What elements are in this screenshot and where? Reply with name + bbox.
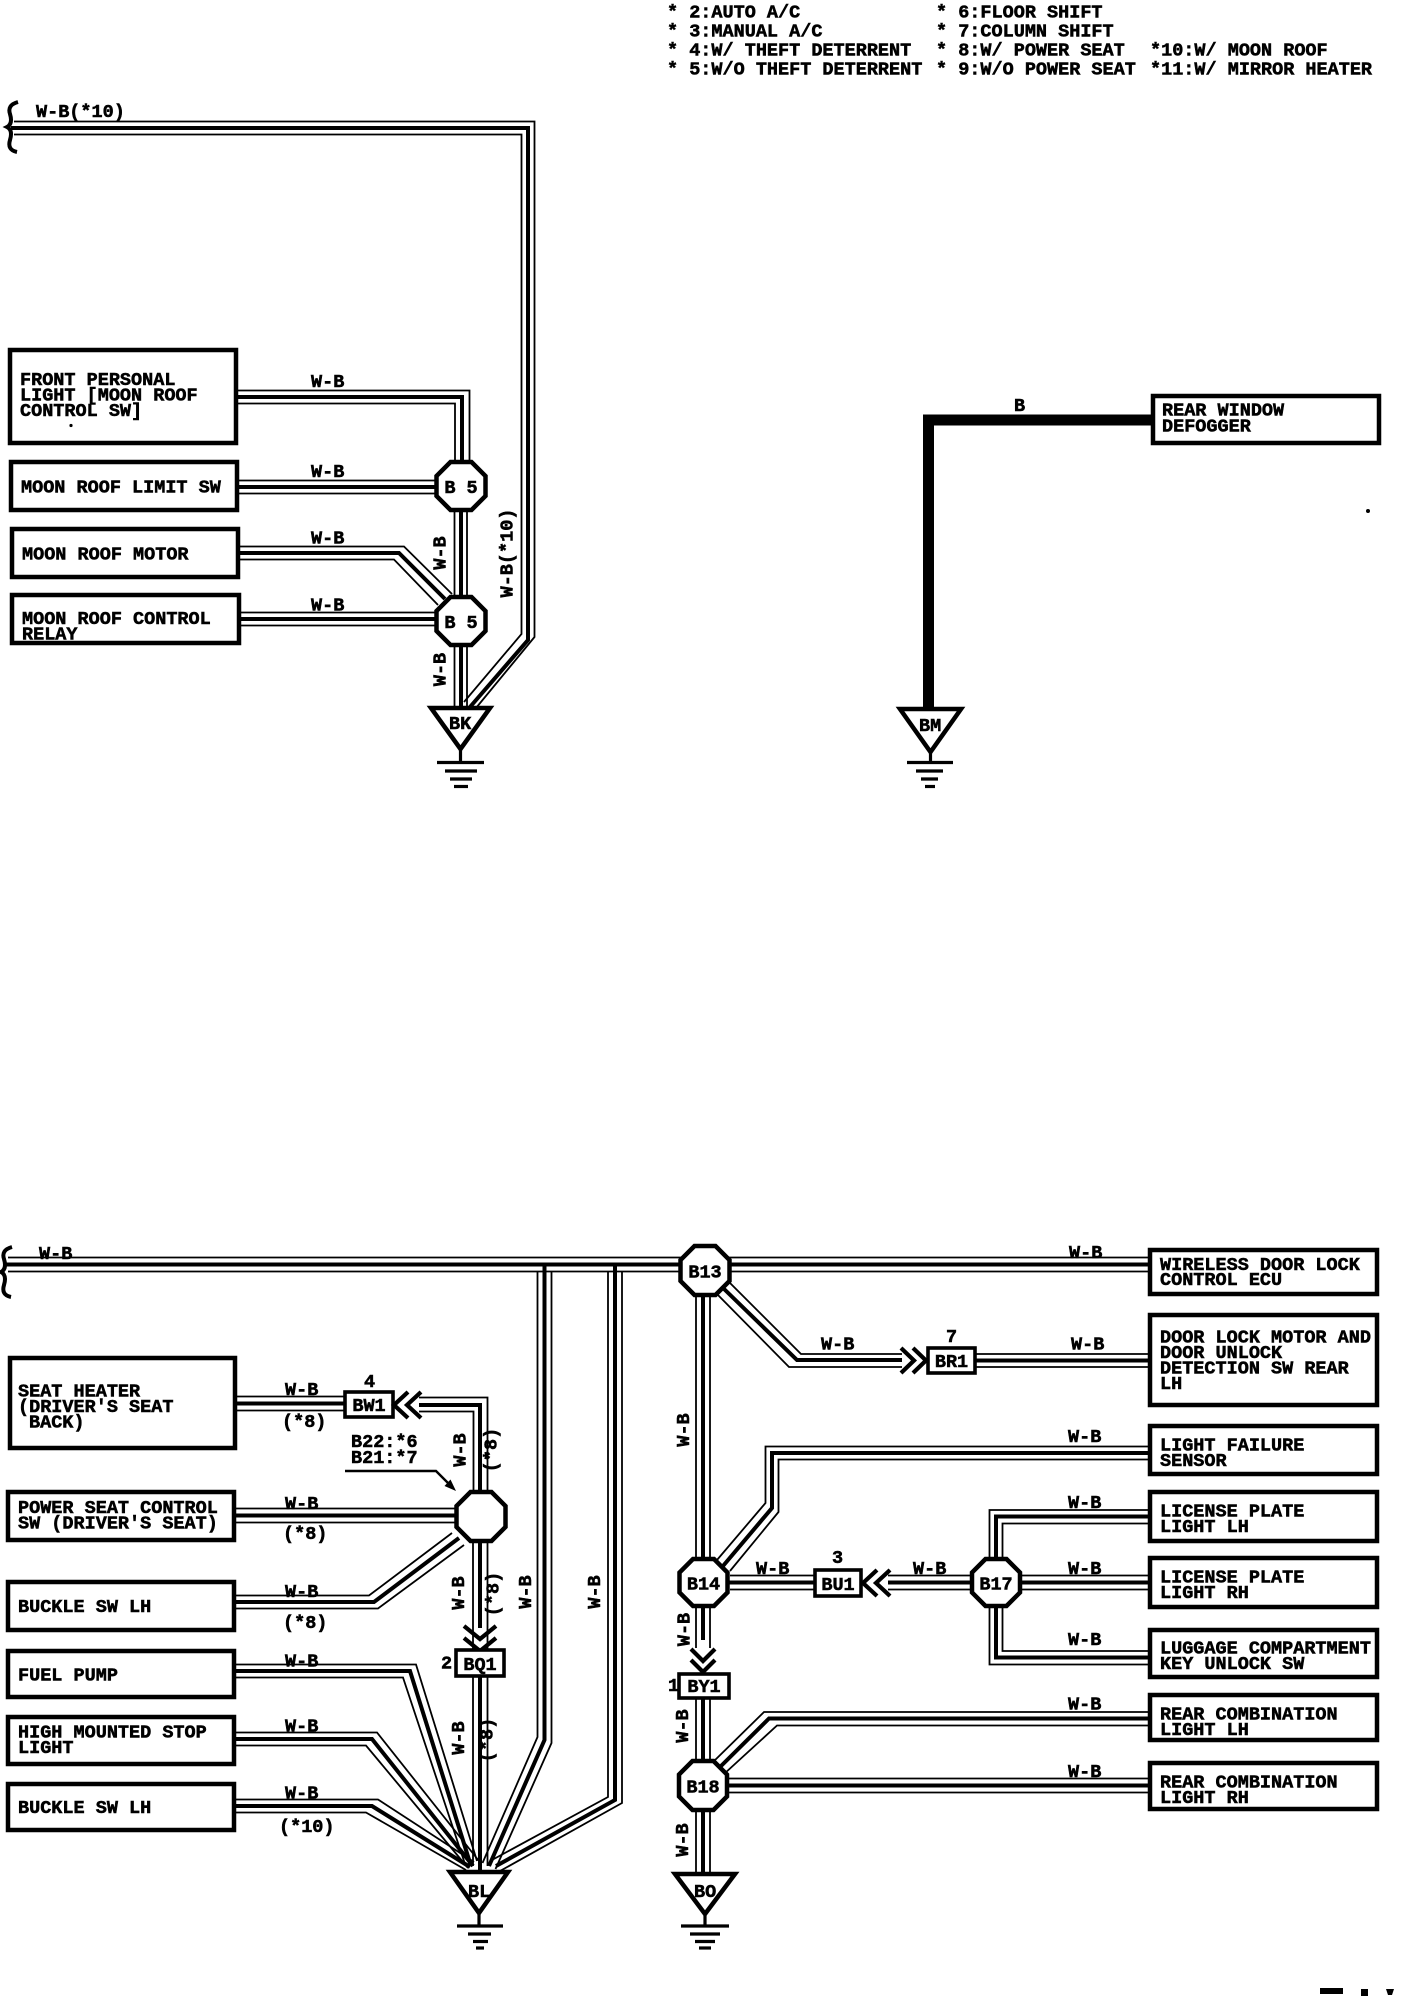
ground BO (675, 1874, 735, 1914)
arrows into BY1 (691, 1649, 715, 1661)
wire BQ1 down to ground BL (472, 1676, 474, 1866)
svg-text:W-B(*10): W-B(*10) (36, 102, 125, 123)
svg-text:W-B: W-B (451, 1433, 472, 1466)
wire fuel pump to ground BL (234, 1665, 477, 1862)
svg-text:MOON ROOF MOTOR: MOON ROOF MOTOR (22, 545, 189, 566)
svg-text:* 9:W/O POWER SEAT: * 9:W/O POWER SEAT (936, 60, 1136, 81)
svg-text:W-B: W-B (1068, 1427, 1101, 1448)
svg-text:BM: BM (919, 716, 941, 737)
leader arrow to octagon (345, 1471, 451, 1486)
svg-text:*11:W/ MIRROR HEATER: *11:W/ MIRROR HEATER (1150, 60, 1373, 81)
svg-text:(*8): (*8) (283, 1524, 327, 1545)
svg-text:B13: B13 (688, 1263, 721, 1284)
svg-text:B14: B14 (687, 1575, 720, 1596)
svg-text:CONTROL ECU: CONTROL ECU (1160, 1270, 1282, 1291)
svg-text:B 5: B 5 (444, 613, 477, 634)
wire B14 to BU1 (730, 1575, 815, 1577)
svg-text:* 8:W/ POWER SEAT: * 8:W/ POWER SEAT (936, 41, 1125, 62)
box REAR COMBINATION LIGHT LH (1150, 1695, 1377, 1740)
svg-text:W-B: W-B (449, 1576, 470, 1609)
svg-text:W-B: W-B (285, 1380, 318, 1401)
wire B5 to ground BK (454, 644, 456, 706)
wire buckle sw lh to octagon diagonal (234, 1533, 452, 1596)
wire BU1 arrows to B17 (888, 1575, 975, 1577)
svg-text:B21:*7: B21:*7 (351, 1448, 418, 1469)
legend note column 3 (1150, 41, 1373, 81)
svg-text:W-B: W-B (1069, 1243, 1102, 1264)
connector B17 octagon (972, 1559, 1020, 1606)
svg-text:W-B: W-B (285, 1784, 318, 1805)
svg-text:W-B: W-B (285, 1582, 318, 1603)
svg-text:4: 4 (364, 1372, 375, 1393)
svg-text:W-B: W-B (311, 372, 344, 393)
svg-text:W-B: W-B (311, 529, 344, 550)
svg-text:* 3:MANUAL A/C: * 3:MANUAL A/C (667, 22, 822, 43)
svg-text:LH: LH (1160, 1374, 1182, 1395)
wire front personal light to B5 (236, 391, 470, 467)
svg-text:(*8): (*8) (478, 1718, 499, 1762)
box LICENSE PLATE LIGHT RH (1150, 1558, 1377, 1607)
svg-text:KEY UNLOCK SW: KEY UNLOCK SW (1160, 1654, 1305, 1675)
box LICENSE PLATE LIGHT LH (1150, 1492, 1377, 1541)
svg-text:W-B(*10): W-B(*10) (498, 509, 519, 598)
wire B17 down to luggage compartment key unlock sw (1003, 1605, 1151, 1651)
svg-text:SENSOR: SENSOR (1160, 1451, 1228, 1472)
svg-text:FUEL PUMP: FUEL PUMP (18, 1666, 118, 1687)
svg-text:BW1: BW1 (352, 1396, 385, 1417)
svg-text:B18: B18 (686, 1778, 719, 1799)
wire moon roof limit sw to B5 (237, 480, 442, 482)
svg-text:W-B: W-B (1068, 1630, 1101, 1651)
box REAR WINDOW DEFOGGER (1153, 396, 1379, 443)
svg-text:BL: BL (468, 1882, 490, 1903)
svg-text:* 5:W/O THEFT DETERRENT: * 5:W/O THEFT DETERRENT (667, 60, 922, 81)
box MOON ROOF LIMIT SW (11, 462, 237, 510)
svg-text:RELAY: RELAY (22, 625, 78, 646)
page mark square (1361, 1989, 1368, 1996)
wire B5 to B5 vertical (454, 508, 456, 600)
box BUCKLE SW LH (8, 1582, 234, 1630)
wire B17 right to license plate light RH (1018, 1575, 1150, 1577)
svg-text:LIGHT LH: LIGHT LH (1160, 1517, 1249, 1538)
svg-text:W-B: W-B (431, 536, 452, 569)
box BUCKLE SW LH 2 (8, 1784, 234, 1830)
svg-text:W-B: W-B (675, 1613, 696, 1646)
svg-text:LIGHT RH: LIGHT RH (1160, 1583, 1249, 1604)
svg-text:W-B: W-B (821, 1335, 854, 1356)
connector B5 lower octagon (437, 597, 486, 645)
box MOON ROOF CONTROL RELAY (12, 595, 239, 643)
svg-text:W-B: W-B (39, 1244, 72, 1265)
wire ground drop at x=542 to BL (483, 1272, 538, 1863)
svg-text:BR1: BR1 (935, 1352, 968, 1373)
connector BW1 (345, 1392, 393, 1417)
box LIGHT FAILURE SENSOR (1150, 1426, 1377, 1474)
svg-text:B17: B17 (979, 1575, 1012, 1596)
svg-text:DETECTION SW REAR: DETECTION SW REAR (1160, 1359, 1350, 1380)
wire high mounted stop light to ground BL (234, 1733, 479, 1862)
svg-text:BU1: BU1 (821, 1575, 854, 1596)
arrows into BR1 (901, 1348, 914, 1373)
svg-text:W-B: W-B (285, 1494, 318, 1515)
svg-text:* 2:AUTO A/C: * 2:AUTO A/C (667, 3, 800, 24)
ground BK (431, 708, 490, 749)
svg-text:W-B: W-B (285, 1652, 318, 1673)
svg-text:W-B: W-B (1068, 1762, 1101, 1783)
svg-text:* 7:COLUMN SHIFT: * 7:COLUMN SHIFT (936, 22, 1114, 43)
svg-text:W-B: W-B (756, 1559, 789, 1580)
svg-text:LIGHT LH: LIGHT LH (1160, 1720, 1249, 1741)
box LUGGAGE COMPARTMENT KEY UNLOCK SW (1150, 1630, 1377, 1677)
wire light failure sensor to B14 (717, 1447, 1150, 1561)
ground BL (450, 1872, 508, 1913)
box DOOR LOCK MOTOR AND DOOR UNLOCK DETECTION SW REAR LH (1150, 1315, 1377, 1405)
ground BM (900, 709, 961, 752)
svg-text:W-B: W-B (431, 653, 452, 686)
wire B18 down to ground BO (695, 1810, 697, 1872)
svg-text:* 4:W/ THEFT DETERRENT: * 4:W/ THEFT DETERRENT (667, 41, 911, 62)
svg-text:B: B (1014, 396, 1025, 417)
svg-text:(*8): (*8) (282, 1412, 326, 1433)
box FUEL PUMP (8, 1651, 234, 1697)
svg-text:W-B: W-B (674, 1413, 695, 1446)
box POWER SEAT CONTROL SW (8, 1492, 234, 1540)
svg-text:3: 3 (832, 1548, 843, 1569)
wire B rear window defogger thick (929, 420, 1154, 709)
svg-text:* 6:FLOOR SHIFT: * 6:FLOOR SHIFT (936, 3, 1103, 24)
wire BY1 to B18 (695, 1698, 697, 1762)
wire B18 to rear combination light RH (728, 1778, 1150, 1780)
svg-text:LIGHT RH: LIGHT RH (1160, 1788, 1249, 1809)
box REAR COMBINATION LIGHT RH (1150, 1763, 1377, 1809)
wire B14 down to BY1 (695, 1605, 697, 1648)
dot artifact (1366, 509, 1370, 513)
wire ground drop at x=615 to BL (492, 1272, 608, 1860)
wire moon roof control relay to B5 (239, 612, 441, 614)
svg-text:SW (DRIVER'S SEAT): SW (DRIVER'S SEAT) (18, 1514, 218, 1535)
page mark tick (1386, 1989, 1394, 1995)
wire W-B from previous page: brace (1, 1247, 12, 1297)
svg-text:*10:W/ MOON ROOF: *10:W/ MOON ROOF (1150, 41, 1328, 62)
connector BR1 (928, 1348, 975, 1373)
wire power seat control sw to octagon (234, 1508, 462, 1510)
connector B14 octagon (680, 1559, 728, 1606)
svg-text:W-B: W-B (311, 596, 344, 617)
connector B13 octagon (681, 1246, 730, 1295)
svg-text:W-B: W-B (673, 1823, 694, 1856)
box SEAT HEATER (10, 1358, 235, 1448)
wire moon roof motor to B5 (238, 547, 452, 595)
wire W-B(*10) from previous page: brace (7, 102, 18, 152)
dot artifact (69, 424, 72, 427)
svg-text:W-B: W-B (1068, 1493, 1101, 1514)
arrows into BQ1 (464, 1626, 496, 1639)
box WIRELESS DOOR LOCK CONTROL ECU (1150, 1250, 1377, 1294)
wire buckle sw lh 2 to ground BL (234, 1800, 474, 1863)
box MOON ROOF MOTOR (12, 529, 238, 577)
svg-text:W-B: W-B (1068, 1559, 1101, 1580)
svg-text:2: 2 (441, 1654, 452, 1675)
svg-text:(*8): (*8) (484, 1572, 505, 1616)
wire W-B(*10) top run and drop to ground BK (14, 122, 535, 709)
svg-text:W-B: W-B (449, 1721, 470, 1754)
wire octagon down to BQ1 (472, 1541, 474, 1650)
svg-text:BUCKLE SW LH: BUCKLE SW LH (18, 1798, 151, 1819)
svg-text:(*8): (*8) (283, 1613, 327, 1634)
wire BR1 to door lock motor box (975, 1353, 1150, 1355)
wire seat heater to BW1 (235, 1396, 345, 1398)
connector BU1 (815, 1570, 861, 1596)
connector B18 octagon (679, 1761, 727, 1810)
svg-text:LIGHT: LIGHT (18, 1738, 74, 1759)
svg-text:W-B: W-B (673, 1709, 694, 1742)
connector BQ1 (456, 1650, 504, 1676)
svg-text:DEFOGGER: DEFOGGER (1162, 417, 1252, 438)
arrows into BU1 (863, 1570, 877, 1596)
svg-text:BY1: BY1 (687, 1677, 720, 1698)
wire B18 diagonal to rear combination light LH (711, 1712, 1150, 1764)
svg-text:B 5: B 5 (444, 478, 477, 499)
octagon junction B22/B21 (457, 1492, 506, 1541)
wire W-B top run (8, 1257, 1150, 1259)
connector B5 upper octagon (437, 462, 486, 510)
svg-text:(*8): (*8) (482, 1428, 503, 1472)
svg-text:W-B: W-B (913, 1559, 946, 1580)
page mark bar (1320, 1988, 1343, 1994)
wire B13 to BR1 diagonal (728, 1281, 902, 1354)
svg-text:(*10): (*10) (279, 1817, 335, 1838)
svg-text:BACK): BACK) (29, 1413, 85, 1434)
svg-text:W-B: W-B (516, 1575, 537, 1608)
svg-text:W-B: W-B (311, 462, 344, 483)
svg-text:MOON ROOF LIMIT SW: MOON ROOF LIMIT SW (21, 478, 222, 499)
box FRONT PERSONAL LIGHT [MOON ROOF CONTROL SW] (10, 350, 236, 443)
wire BW1 arrows to octagon (419, 1398, 488, 1497)
svg-text:W-B: W-B (1071, 1335, 1104, 1356)
wire B17 up to license plate light LH (990, 1510, 1151, 1560)
svg-text:W-B: W-B (285, 1717, 318, 1738)
connector BY1 (679, 1674, 729, 1698)
svg-text:BUCKLE SW LH: BUCKLE SW LH (18, 1597, 151, 1618)
svg-text:CONTROL SW]: CONTROL SW] (20, 401, 142, 422)
svg-text:W-B: W-B (1068, 1695, 1101, 1716)
svg-text:BO: BO (694, 1882, 716, 1903)
svg-text:7: 7 (946, 1327, 957, 1348)
legend note column 2 (936, 3, 1136, 81)
arrows into BW1 (394, 1392, 408, 1418)
wire B13 to B14 vertical (695, 1294, 697, 1560)
svg-text:W-B: W-B (585, 1575, 606, 1608)
box HIGH MOUNTED STOP LIGHT (8, 1717, 234, 1764)
svg-text:BK: BK (449, 714, 472, 735)
svg-text:BQ1: BQ1 (463, 1655, 496, 1676)
legend note column 1 (667, 3, 922, 81)
